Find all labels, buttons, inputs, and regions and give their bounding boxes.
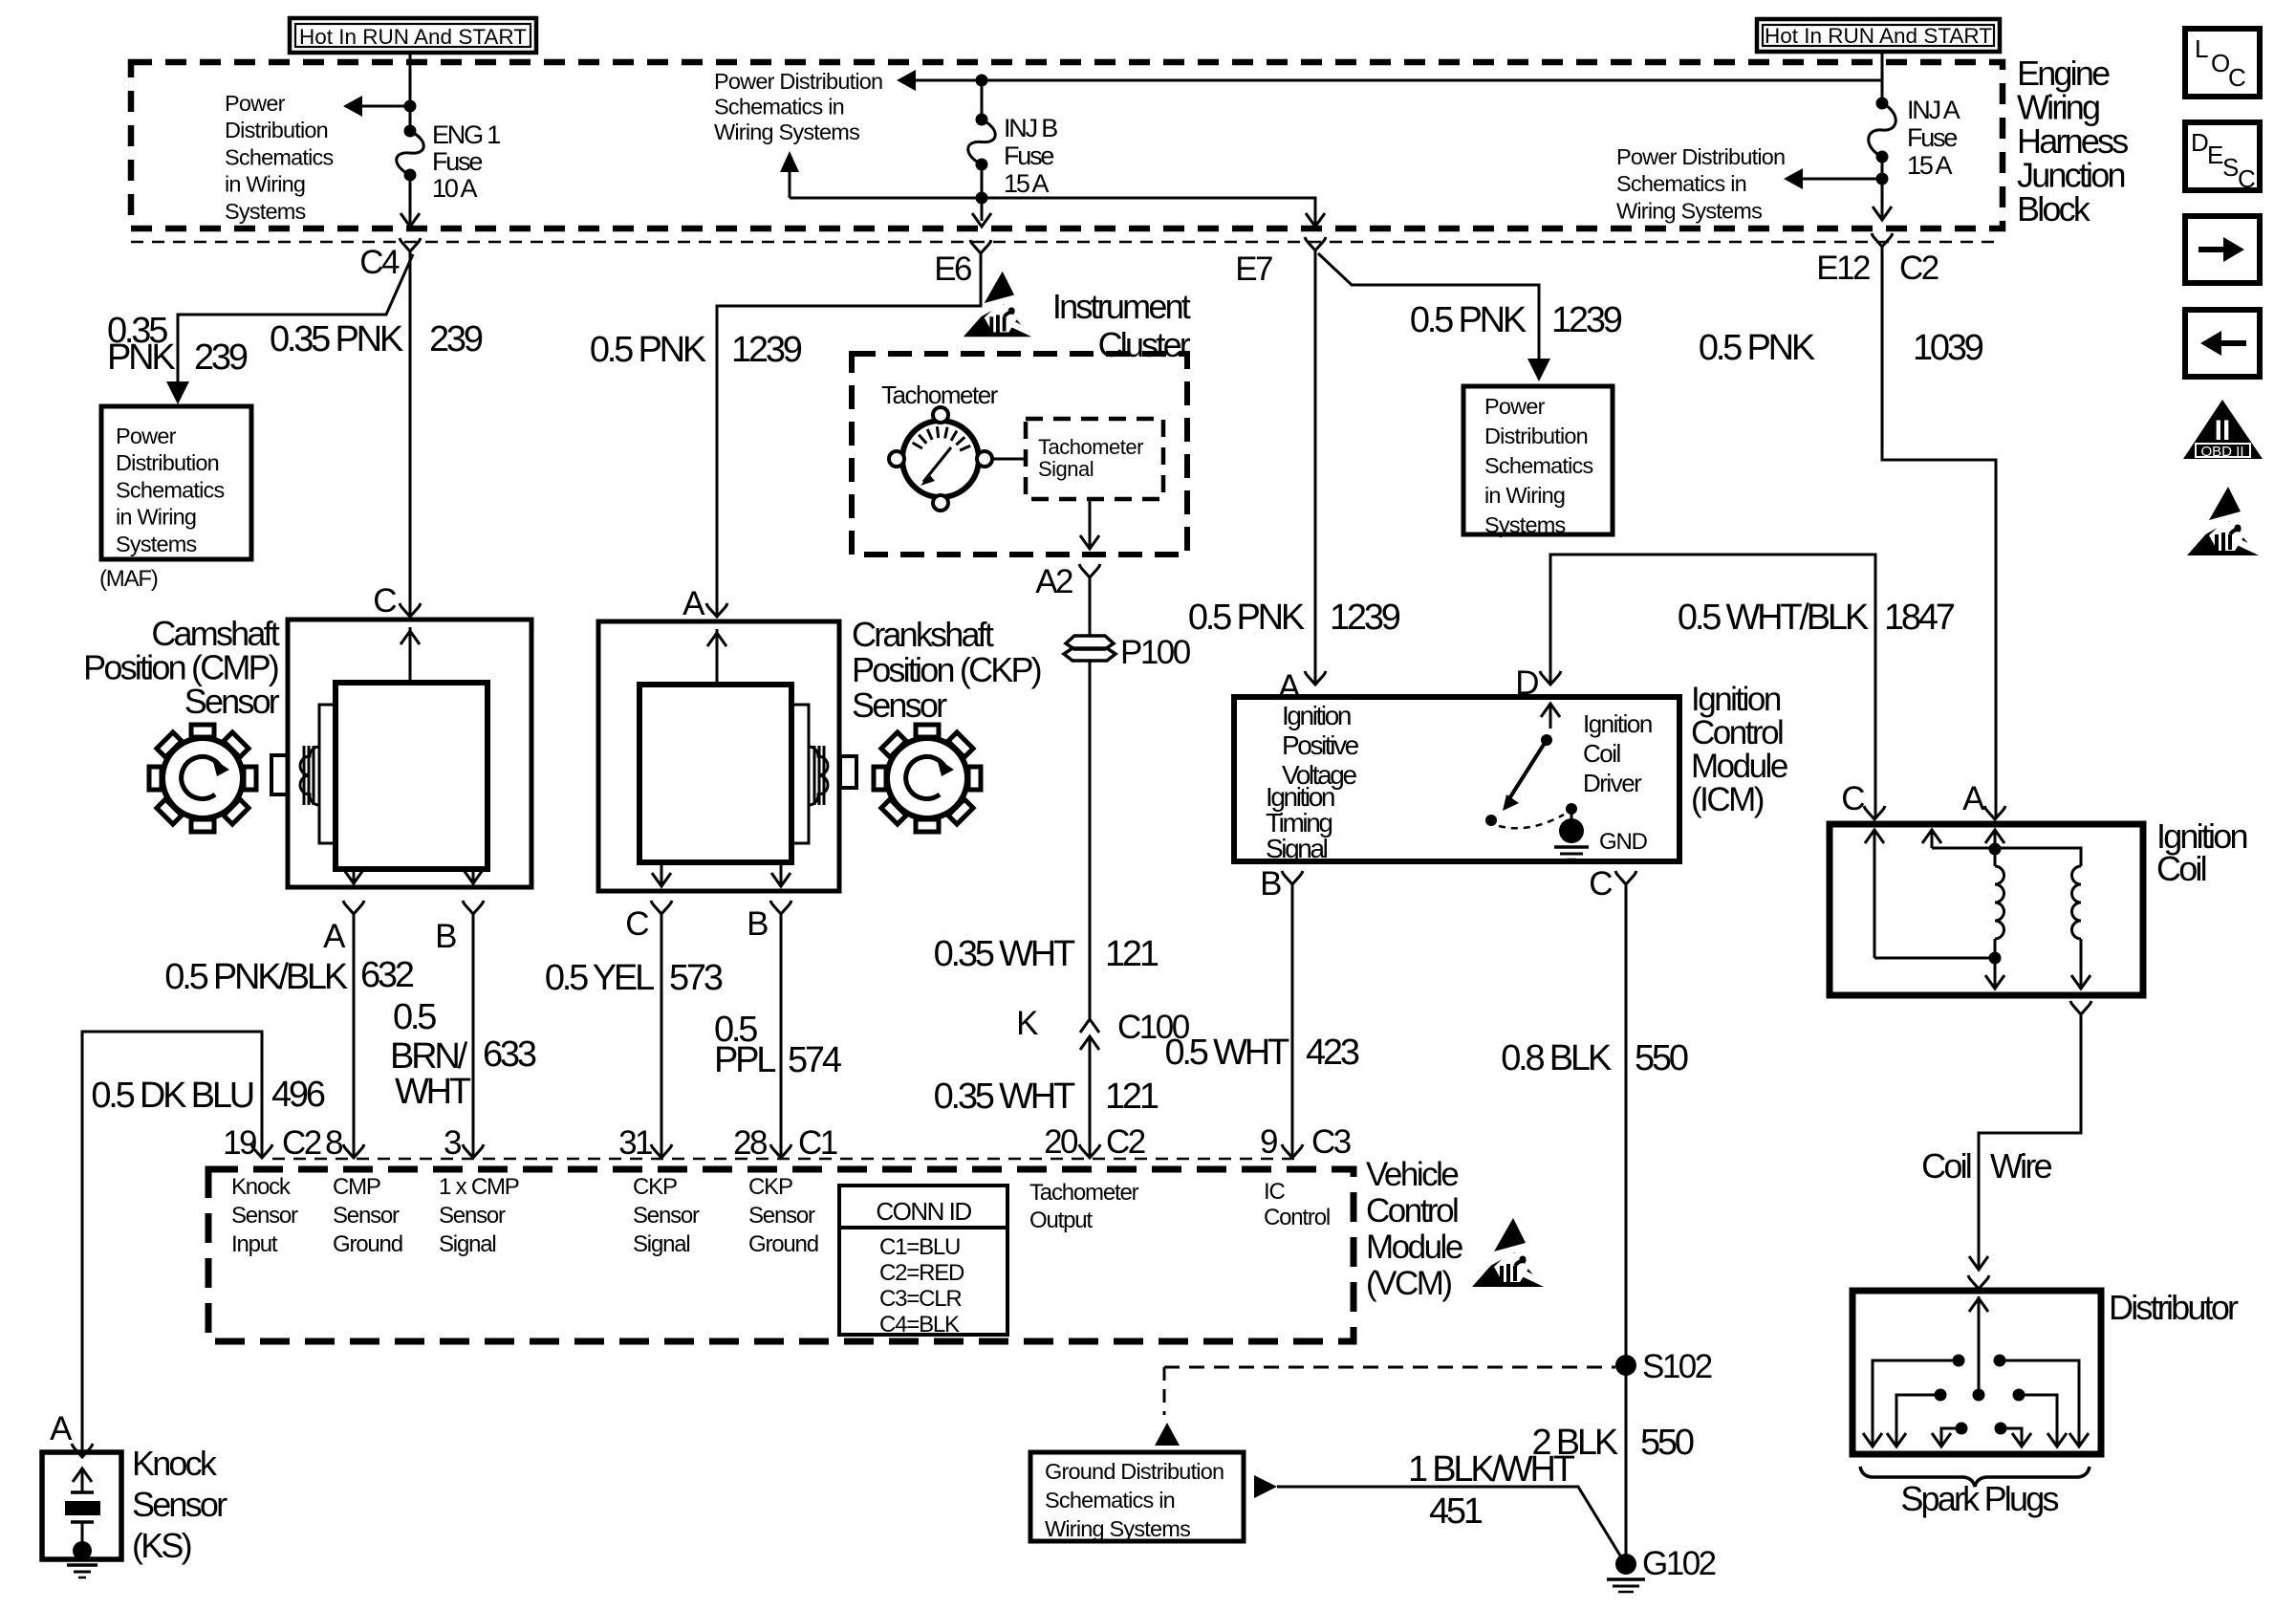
svg-text:1847: 1847 xyxy=(1884,598,1955,638)
svg-text:S102: S102 xyxy=(1642,1348,1712,1385)
svg-text:Block: Block xyxy=(2017,189,2091,228)
svg-text:Systems: Systems xyxy=(1484,512,1566,537)
label 1 BLK/WHT 451 xyxy=(1408,1449,1575,1532)
label CKP Sensor Ground xyxy=(748,1174,818,1257)
svg-text:0.5 DK BLU: 0.5 DK BLU xyxy=(91,1076,252,1116)
svg-text:Control: Control xyxy=(1264,1205,1330,1230)
fuse ENG 1 10A xyxy=(397,125,424,182)
label 0.5 PNK 1239 (E6 wire) xyxy=(590,330,802,370)
svg-text:Wiring Systems: Wiring Systems xyxy=(1616,198,1762,223)
ESD symbol VCM xyxy=(1472,1218,1548,1287)
svg-text:Systems: Systems xyxy=(225,199,306,224)
arrowhead at junction block exit C4 xyxy=(401,213,420,227)
junction node E7 branch xyxy=(976,192,988,205)
icon arrow right xyxy=(2185,216,2260,283)
svg-text:Signal: Signal xyxy=(1266,834,1328,863)
svg-text:Wire: Wire xyxy=(1990,1146,2052,1186)
svg-text:1039: 1039 xyxy=(1913,328,1983,368)
distributor rotor wire xyxy=(1969,1296,1988,1402)
label 0.8 BLK 550 xyxy=(1501,1038,1688,1078)
svg-text:E6: E6 xyxy=(934,250,971,288)
knock sensor element xyxy=(65,1469,100,1560)
svg-text:Control: Control xyxy=(1366,1192,1458,1229)
svg-text:Sensor: Sensor xyxy=(852,685,947,725)
svg-text:574: 574 xyxy=(788,1040,842,1080)
svg-text:Schematics: Schematics xyxy=(116,477,225,502)
svg-text:E: E xyxy=(2207,141,2223,169)
label 0.35 PNK 239 (C4 wire) xyxy=(270,319,483,359)
connector A at ignition coil xyxy=(1962,780,2005,819)
label Tachometer Output xyxy=(1029,1180,1139,1233)
svg-text:Signal: Signal xyxy=(439,1231,496,1257)
connector at coil output xyxy=(2070,1001,2091,1014)
wire fuse to C4 xyxy=(409,175,412,224)
arrow into Power Distribution box (MAF) xyxy=(166,381,189,404)
svg-text:Driver: Driver xyxy=(1583,769,1642,797)
svg-text:II: II xyxy=(2215,415,2231,446)
svg-text:in Wiring: in Wiring xyxy=(116,505,196,530)
svg-text:Knock: Knock xyxy=(231,1174,292,1200)
svg-text:GND: GND xyxy=(1599,829,1648,855)
ESD symbol instrument cluster xyxy=(964,272,1035,337)
label Knock Sensor (KS) xyxy=(132,1444,227,1565)
arrow to Power Distribution Schematics (middle) xyxy=(897,70,916,91)
tachometer gauge xyxy=(889,407,992,511)
G102 ground xyxy=(1615,1545,1716,1582)
svg-text:C1=BLU: C1=BLU xyxy=(879,1234,960,1260)
connector pin 9 C3 xyxy=(1260,1123,1351,1161)
svg-text:Distribution: Distribution xyxy=(1484,424,1588,448)
icon ESD warning xyxy=(2187,487,2263,555)
svg-text:633: 633 xyxy=(483,1034,536,1075)
label Crankshaft Position (CKP) Sensor xyxy=(852,615,1041,725)
coil wire A internal xyxy=(1985,830,2004,866)
svg-text:O: O xyxy=(2211,49,2229,77)
svg-text:C: C xyxy=(2228,63,2245,92)
svg-text:632: 632 xyxy=(360,955,414,995)
ICM box xyxy=(1234,697,1679,861)
dashed wire VCM to S102 xyxy=(1164,1367,1615,1415)
spark plugs brace xyxy=(1860,1467,2090,1487)
svg-text:Sensor: Sensor xyxy=(748,1203,815,1229)
svg-text:D: D xyxy=(2191,128,2208,157)
ICM coil driver switch xyxy=(1485,704,1577,828)
CKP pickup coil bracket xyxy=(791,705,809,843)
svg-text:Power: Power xyxy=(116,424,177,448)
label Vehicle Control Module (VCM) xyxy=(1366,1156,1462,1302)
svg-text:Ground: Ground xyxy=(748,1231,818,1257)
svg-text:0.5 PNK/BLK: 0.5 PNK/BLK xyxy=(164,957,348,997)
coil primary winding xyxy=(1995,866,2004,939)
Distributor box xyxy=(1852,1291,2101,1454)
label Ignition Coil xyxy=(2156,816,2246,888)
svg-text:Distribution: Distribution xyxy=(116,450,219,475)
CKP sensor inner box xyxy=(639,685,791,862)
label Ignition Control Module (ICM) xyxy=(1691,681,1787,818)
svg-text:15 A: 15 A xyxy=(1907,151,1952,180)
label 0.5 WHT 423 xyxy=(1164,1033,1358,1073)
svg-text:CKP: CKP xyxy=(748,1174,792,1200)
svg-text:0.5 WHT: 0.5 WHT xyxy=(1164,1033,1289,1073)
svg-text:19: 19 xyxy=(223,1124,256,1162)
svg-text:Coil: Coil xyxy=(2156,849,2206,888)
Engine Wiring Harness Junction Block dashed box xyxy=(131,62,2003,228)
svg-text:A: A xyxy=(50,1410,73,1447)
connector B at CKP xyxy=(747,901,791,943)
wire CKP C to VCM pin 31 xyxy=(661,914,663,1157)
svg-text:Schematics in: Schematics in xyxy=(714,95,844,120)
label Ignition Coil Driver xyxy=(1583,709,1652,797)
svg-text:Systems: Systems xyxy=(116,532,197,556)
connector C at CKP xyxy=(625,901,672,943)
svg-text:Instrument: Instrument xyxy=(1052,287,1191,326)
svg-text:Position (CKP): Position (CKP) xyxy=(852,650,1041,689)
svg-text:PPL: PPL xyxy=(714,1040,775,1080)
label 0.5 WHT/BLK 1847 xyxy=(1678,598,1955,638)
CKP internal wire A xyxy=(707,629,726,685)
label Ignition Timing Signal xyxy=(1266,782,1334,863)
label 0.5 DK BLU 496 xyxy=(91,1075,325,1116)
svg-text:INJ A: INJ A xyxy=(1907,96,1960,124)
svg-text:OBD II: OBD II xyxy=(2200,444,2243,460)
svg-text:451: 451 xyxy=(1429,1491,1483,1532)
svg-text:Power Distribution: Power Distribution xyxy=(1616,144,1785,169)
svg-text:28: 28 xyxy=(733,1124,767,1162)
arrow up to Power Distribution text xyxy=(780,151,799,198)
connector A at knock sensor xyxy=(50,1410,93,1457)
svg-text:0.5 PNK: 0.5 PNK xyxy=(1188,598,1305,638)
svg-text:Tachometer: Tachometer xyxy=(1029,1180,1139,1206)
svg-text:Crankshaft: Crankshaft xyxy=(852,615,994,654)
connector D at ICM xyxy=(1515,664,1561,702)
svg-text:239: 239 xyxy=(194,337,248,378)
svg-text:31: 31 xyxy=(618,1124,652,1162)
CKP sensor outer box xyxy=(598,621,839,891)
wire A2 to P100 xyxy=(1089,577,1092,635)
CKP internal wire B xyxy=(771,862,791,887)
svg-text:423: 423 xyxy=(1306,1033,1359,1073)
arrow to ground distribution xyxy=(1155,1423,1180,1446)
svg-text:Sensor: Sensor xyxy=(231,1203,298,1229)
connector A at ICM xyxy=(1278,668,1326,706)
label INJ A Fuse 15 A xyxy=(1907,96,1960,180)
svg-text:P100: P100 xyxy=(1120,634,1191,671)
svg-text:Sensor: Sensor xyxy=(184,682,280,721)
label Power Distribution Schematics in Wiring Systems (top middle) xyxy=(714,69,882,144)
CMP internal wire B xyxy=(464,869,483,884)
connector E6 xyxy=(934,240,991,288)
connector C at ICM xyxy=(1589,865,1636,903)
svg-text:Distributor: Distributor xyxy=(2109,1288,2239,1327)
svg-text:0.35 PNK: 0.35 PNK xyxy=(270,319,403,359)
CKP internal wire C xyxy=(652,862,671,887)
connector C4 xyxy=(359,238,421,281)
svg-text:0.35 WHT: 0.35 WHT xyxy=(934,1077,1075,1117)
svg-text:1239: 1239 xyxy=(1551,300,1622,340)
svg-text:in Wiring: in Wiring xyxy=(225,172,305,197)
svg-text:9: 9 xyxy=(1260,1123,1277,1161)
connector A2 xyxy=(1035,563,1100,600)
svg-text:Power Distribution: Power Distribution xyxy=(714,69,882,94)
svg-text:A2: A2 xyxy=(1035,563,1072,600)
svg-text:A: A xyxy=(1962,780,1985,817)
label 0.5 PNK/BLK 632 xyxy=(164,955,414,997)
label Power Distribution Schematics in Wiring Systems (right) xyxy=(1616,144,1785,223)
Ground Distribution Schematics box xyxy=(1030,1452,1244,1541)
branch wire to E7 xyxy=(790,198,1315,224)
svg-text:121: 121 xyxy=(1105,1077,1159,1117)
connector at distributor input xyxy=(1968,1275,1989,1289)
svg-text:Input: Input xyxy=(231,1231,278,1257)
junction node INJ B tap xyxy=(976,75,988,87)
svg-text:C1: C1 xyxy=(798,1124,837,1162)
wire ground distribution to G102 xyxy=(1254,1475,1623,1560)
svg-text:B: B xyxy=(1260,865,1281,903)
coil primary bottom xyxy=(1985,939,2004,989)
wire E12 to ignition coil A xyxy=(1882,247,1996,818)
svg-text:10 A: 10 A xyxy=(432,174,477,203)
wire E6 to CKP pin A xyxy=(717,253,981,616)
CKP gear icon xyxy=(874,725,981,832)
wire CKP B to VCM pin 28 xyxy=(780,914,783,1157)
svg-text:A: A xyxy=(682,585,705,622)
svg-text:(VCM): (VCM) xyxy=(1366,1265,1451,1302)
connector E7 xyxy=(1235,237,1326,288)
icon arrow left xyxy=(2185,310,2260,377)
svg-text:Fuse: Fuse xyxy=(432,147,482,176)
S102 splice xyxy=(1615,1348,1712,1385)
svg-text:C2: C2 xyxy=(1899,250,1939,287)
ICM driver ground xyxy=(1554,818,1589,859)
junction block header box right "Hot In RUN And START" xyxy=(1757,19,2000,52)
connector pin 8 xyxy=(325,1124,364,1162)
svg-text:C: C xyxy=(1589,865,1612,903)
svg-text:1239: 1239 xyxy=(1330,598,1400,638)
Power Distribution Schematics box (MAF) xyxy=(101,406,251,559)
coil wire to distributor xyxy=(1979,1014,2081,1268)
svg-text:Spark Plugs: Spark Plugs xyxy=(1900,1479,2058,1518)
svg-text:Fuse: Fuse xyxy=(1004,141,1053,170)
label 0.5 YEL 573 xyxy=(545,958,723,998)
svg-text:Fuse: Fuse xyxy=(1907,123,1957,152)
svg-text:Output: Output xyxy=(1029,1207,1093,1233)
svg-text:Tachometer: Tachometer xyxy=(881,381,999,409)
arrowhead at E7 xyxy=(1306,213,1325,227)
label 0.5 BRN/WHT 633 xyxy=(390,997,536,1112)
connector B at CMP xyxy=(435,901,484,955)
connector pin 28 C1 xyxy=(733,1124,837,1162)
svg-text:Schematics in: Schematics in xyxy=(1616,171,1746,196)
svg-text:CMP: CMP xyxy=(333,1174,380,1200)
wire tachometer signal output xyxy=(1080,499,1099,549)
CMP gear icon xyxy=(149,725,256,832)
junction node on ENG1 feed xyxy=(404,100,417,113)
arrow into Power Distribution box (right) xyxy=(1527,359,1550,381)
svg-text:C4=BLK: C4=BLK xyxy=(879,1312,960,1338)
wire C100 to VCM pin 20 xyxy=(1089,1036,1092,1157)
svg-text:Vehicle: Vehicle xyxy=(1366,1156,1458,1193)
label CKP Sensor Signal xyxy=(633,1174,700,1257)
svg-text:G102: G102 xyxy=(1642,1545,1716,1582)
svg-text:Schematics in: Schematics in xyxy=(1045,1488,1175,1512)
svg-text:573: 573 xyxy=(669,958,723,998)
knock sensor ground xyxy=(67,1565,97,1577)
svg-text:Power: Power xyxy=(1484,394,1546,419)
Ignition Coil box xyxy=(1830,824,2143,995)
svg-text:Hot In RUN And START: Hot In RUN And START xyxy=(299,25,527,49)
connector K C100 xyxy=(1016,1005,1190,1050)
svg-text:E7: E7 xyxy=(1235,250,1272,288)
svg-text:Coil: Coil xyxy=(1921,1146,1971,1186)
label 0.5 PNK 1239 (ICM A wire) xyxy=(1188,598,1400,638)
svg-text:0.5 PNK: 0.5 PNK xyxy=(590,330,706,370)
svg-text:IC: IC xyxy=(1264,1179,1285,1205)
svg-text:BRN/: BRN/ xyxy=(390,1036,468,1077)
coil secondary feed xyxy=(1922,830,2081,866)
label 0.35 WHT 121 (upper) xyxy=(934,934,1159,974)
svg-text:0.5: 0.5 xyxy=(393,997,436,1037)
Tachometer Signal dashed box xyxy=(1026,419,1163,499)
label 0.35 WHT 121 (lower) xyxy=(934,1077,1159,1117)
CMP pickup coil bracket xyxy=(319,705,336,843)
fuse INJ B 15A xyxy=(968,114,996,171)
Instrument Cluster dashed box xyxy=(852,354,1187,555)
CONN ID table xyxy=(839,1186,1007,1338)
branch wire E7 to power dist box xyxy=(1318,253,1539,377)
Vehicle Control Module dashed box xyxy=(208,1169,1354,1341)
svg-text:Cluster: Cluster xyxy=(1098,325,1191,364)
svg-text:CONN ID: CONN ID xyxy=(876,1197,971,1226)
svg-text:Ignition: Ignition xyxy=(1583,709,1652,738)
svg-text:ENG 1: ENG 1 xyxy=(432,120,500,149)
wire CMP B to VCM pin 3 xyxy=(472,914,475,1157)
connector E12 C2 xyxy=(1816,233,1939,287)
svg-text:C2=RED: C2=RED xyxy=(879,1260,964,1286)
wire from right header box down xyxy=(1881,52,1884,103)
svg-text:INJ B: INJ B xyxy=(1004,114,1057,142)
wire E7 down to ICM A xyxy=(1314,250,1317,684)
icon LOC xyxy=(2185,29,2260,97)
svg-text:Sensor: Sensor xyxy=(439,1203,506,1229)
label 0.5 PNK 1239 (E7 branch) xyxy=(1410,300,1622,340)
svg-text:20: 20 xyxy=(1044,1123,1078,1161)
svg-text:0.5 PNK: 0.5 PNK xyxy=(1410,300,1527,340)
connector A at CKP xyxy=(682,585,727,622)
svg-text:3: 3 xyxy=(444,1124,461,1162)
svg-text:Ground Distribution: Ground Distribution xyxy=(1045,1459,1224,1484)
svg-text:0.8 BLK: 0.8 BLK xyxy=(1501,1038,1612,1078)
svg-text:1 x CMP: 1 x CMP xyxy=(439,1174,519,1200)
svg-text:B: B xyxy=(747,905,768,943)
arrowhead at E6 xyxy=(972,213,991,227)
svg-text:1239: 1239 xyxy=(731,330,802,370)
connector pin 19 C2 xyxy=(223,1124,321,1162)
svg-text:Knock: Knock xyxy=(132,1444,218,1483)
svg-text:Distribution: Distribution xyxy=(225,118,328,142)
CKP connector tab xyxy=(840,756,856,788)
svg-text:(KS): (KS) xyxy=(132,1526,191,1565)
CMP internal wire C xyxy=(401,627,420,683)
svg-text:(MAF): (MAF) xyxy=(99,566,158,592)
coil secondary bottom xyxy=(2071,939,2090,989)
label CMP Sensor Ground xyxy=(333,1174,402,1257)
svg-text:0.5 PNK: 0.5 PNK xyxy=(1699,328,1815,368)
junction node arrow branch xyxy=(1876,173,1889,185)
svg-text:Ignition: Ignition xyxy=(1691,681,1781,718)
label Instrument Cluster xyxy=(1052,287,1191,364)
svg-text:Sensor: Sensor xyxy=(633,1203,700,1229)
connector C at CMP xyxy=(373,582,421,620)
wire gauge to tachometer signal xyxy=(992,458,1026,461)
svg-text:Sensor: Sensor xyxy=(333,1203,400,1229)
CKP pickup coil winding xyxy=(809,746,828,805)
wire fuse to E12 xyxy=(1881,157,1884,217)
svg-text:A: A xyxy=(323,918,346,955)
connector C at ignition coil xyxy=(1841,780,1885,819)
svg-text:Wiring Systems: Wiring Systems xyxy=(1045,1516,1190,1541)
svg-text:Ignition: Ignition xyxy=(1282,701,1351,730)
svg-text:CKP: CKP xyxy=(633,1174,677,1200)
label INJ B Fuse 15 A xyxy=(1004,114,1057,198)
wire ICM C to G102 xyxy=(1625,884,1628,1560)
svg-text:550: 550 xyxy=(1640,1423,1694,1463)
wire P100 to C100 xyxy=(1089,662,1092,1019)
svg-text:Control: Control xyxy=(1691,714,1783,751)
svg-text:Power: Power xyxy=(225,91,286,116)
branch wire to power distribution arrow xyxy=(361,105,410,108)
CMP sensor inner box xyxy=(336,683,487,869)
wire CMP A to VCM pin 8 xyxy=(353,914,356,1157)
VCM connector line (thin dashed) xyxy=(272,1158,1295,1161)
label Coil Wire xyxy=(1921,1146,2051,1186)
label 0.5 PNK 1039 xyxy=(1699,328,1983,368)
svg-text:PNK: PNK xyxy=(107,337,175,378)
svg-text:Signal: Signal xyxy=(1038,457,1094,481)
svg-text:550: 550 xyxy=(1635,1038,1688,1078)
G102 ground symbol xyxy=(1607,1579,1645,1592)
connector pin 31 xyxy=(618,1124,672,1162)
svg-text:Tachometer: Tachometer xyxy=(1038,435,1143,459)
arrowhead at E12 xyxy=(1873,207,1892,220)
coil secondary winding xyxy=(2072,866,2082,939)
fuse INJ A 15A xyxy=(1869,98,1896,163)
svg-text:B: B xyxy=(435,918,456,955)
label Ignition Positive Voltage xyxy=(1282,701,1359,790)
svg-text:C3=CLR: C3=CLR xyxy=(879,1286,962,1312)
svg-text:E12: E12 xyxy=(1816,250,1870,287)
connector pin 20 C2 xyxy=(1044,1123,1145,1161)
CMP sensor outer box xyxy=(288,620,531,887)
svg-text:121: 121 xyxy=(1105,934,1159,974)
svg-text:15 A: 15 A xyxy=(1004,169,1049,198)
svg-text:Signal: Signal xyxy=(633,1231,690,1257)
branch wire to power distribution arrow (right) xyxy=(1802,178,1882,181)
svg-text:L: L xyxy=(2195,34,2208,63)
svg-text:C: C xyxy=(1841,780,1864,817)
svg-text:(ICM): (ICM) xyxy=(1691,781,1764,818)
svg-text:WHT: WHT xyxy=(395,1072,471,1112)
svg-text:in Wiring: in Wiring xyxy=(1484,483,1565,508)
CMP pickup coil winding xyxy=(300,746,319,805)
arrow to Power Distribution Schematics (left) xyxy=(343,96,362,117)
CMP internal wire A xyxy=(344,869,363,884)
svg-text:C2: C2 xyxy=(1106,1123,1145,1161)
label 0.5 PPL 574 xyxy=(714,1010,842,1080)
top feed wire from right header to middle xyxy=(910,79,1882,82)
CMP connector tab xyxy=(271,755,288,794)
label IC Control xyxy=(1264,1179,1330,1230)
svg-text:Wiring Systems: Wiring Systems xyxy=(714,120,859,144)
